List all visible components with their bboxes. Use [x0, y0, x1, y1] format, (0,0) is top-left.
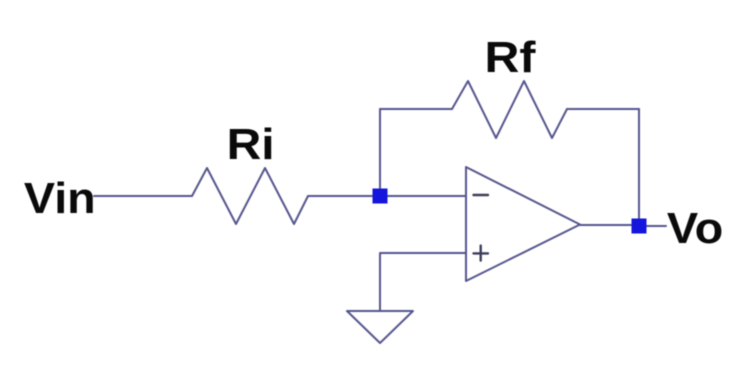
wire node A to op-amp inverting input — [386, 195, 466, 197]
wire Ri to node A — [308, 195, 372, 197]
node A junction — [373, 189, 388, 204]
wire node A up to Rf — [379, 109, 381, 188]
wire op-amp noninverting input — [380, 253, 466, 311]
wire Rf right horizontal — [567, 108, 639, 110]
svg-text:Vin: Vin — [24, 174, 96, 223]
svg-text:Vo: Vo — [667, 204, 723, 253]
wire Rf down to output node — [638, 109, 640, 218]
wire node B to Vo — [646, 225, 666, 227]
op-amp U1 — [466, 167, 580, 281]
wire op-amp output to node B — [580, 224, 631, 226]
wire Rf left horizontal — [380, 108, 452, 110]
op-amp plus sign — [474, 252, 489, 254]
resistor Ri — [192, 168, 308, 224]
op-amp minus sign — [474, 194, 489, 196]
svg-text:Rf: Rf — [485, 33, 536, 82]
resistor Rf — [452, 81, 567, 138]
node B junction — [632, 219, 647, 234]
wire Vin to Ri — [94, 195, 192, 197]
svg-text:Ri: Ri — [227, 120, 275, 169]
ground — [347, 311, 413, 343]
